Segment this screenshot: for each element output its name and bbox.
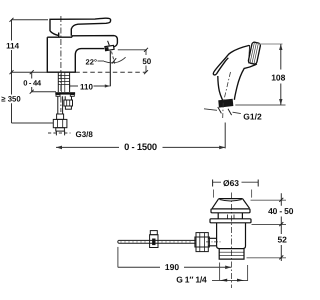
svg-text:40 - 50: 40 - 50 <box>268 206 294 216</box>
svg-text:Ø63: Ø63 <box>223 178 239 188</box>
svg-text:110: 110 <box>80 82 93 91</box>
svg-text:G1/2: G1/2 <box>243 111 262 121</box>
svg-text:190: 190 <box>165 262 179 272</box>
svg-text:22°: 22° <box>86 58 97 67</box>
svg-text:G3/8: G3/8 <box>76 130 94 139</box>
svg-text:114: 114 <box>6 41 19 50</box>
svg-text:0 - 1500: 0 - 1500 <box>124 141 157 152</box>
svg-text:G 1″ 1/4: G 1″ 1/4 <box>176 275 207 285</box>
svg-text:≥ 350: ≥ 350 <box>1 95 21 104</box>
svg-text:52: 52 <box>277 235 287 245</box>
svg-text:50: 50 <box>142 57 151 66</box>
svg-text:108: 108 <box>271 72 285 82</box>
svg-text:0 - 44: 0 - 44 <box>23 79 42 88</box>
